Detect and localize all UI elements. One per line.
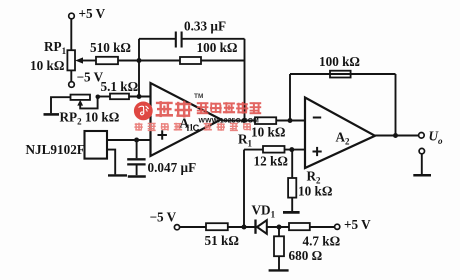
arrowhead RP1 wiper: [75, 57, 83, 63]
watermark text 全球最大IC采购网站: [134, 123, 251, 131]
wire R2 top: [291, 150, 293, 178]
wire RP2 left terminal: [51, 97, 71, 113]
resistor R2 10k: [288, 178, 296, 198]
node 5.1k/A1 inverting: [137, 94, 142, 99]
wire A2 feedback left vertical: [289, 74, 291, 121]
IC NJL9102F: [85, 131, 108, 159]
node 510k/100k/cap: [137, 58, 142, 63]
node R1/A2 inverting/feedback: [288, 118, 293, 123]
watermark text 维库: [156, 101, 192, 118]
terminal +5V top: [69, 13, 75, 19]
node RP2 wiper: [96, 95, 101, 100]
wire A1 output row: [221, 120, 255, 122]
svg-text:4.7 kΩ: 4.7 kΩ: [303, 234, 341, 249]
svg-text:5.1 kΩ: 5.1 kΩ: [101, 79, 139, 94]
ground Uo: [413, 174, 431, 177]
resistor 51k: [206, 223, 228, 230]
plus A2: [313, 151, 322, 153]
wire R1 to A2 inverting input: [276, 120, 305, 122]
ground 680: [269, 269, 289, 271]
node A1 out/R1: [242, 118, 247, 123]
potentiometer RP1: [67, 50, 75, 70]
wire top row left: [139, 38, 175, 40]
terminal stub bar left: [108, 174, 127, 176]
terminal Uo: [419, 133, 425, 139]
svg-text:100 kΩ: 100 kΩ: [319, 54, 360, 69]
resistor 100k A2: [330, 71, 351, 78]
wire 5.1k to A1 inverting input: [129, 96, 151, 98]
capacitor 0.047uF stem top: [136, 140, 138, 158]
op-amp A1: [151, 83, 222, 156]
svg-text:0.33 µF: 0.33 µF: [184, 19, 226, 34]
svg-text:12 kΩ: 12 kΩ: [254, 154, 288, 169]
svg-text:10 kΩ: 10 kΩ: [298, 184, 332, 199]
svg-text:NJL9102F: NJL9102F: [26, 142, 85, 157]
resistor 12k: [263, 146, 285, 153]
wire 4.7k to +5V terminal: [310, 226, 335, 228]
wire feedback vertical right: [244, 39, 246, 121]
minus A2: [313, 117, 321, 119]
wire NJL9102F to A1 + input: [107, 139, 151, 141]
node A2 out/feedback: [393, 133, 398, 138]
svg-text:100 kΩ: 100 kΩ: [197, 40, 238, 55]
watermark text 电子市场网: [197, 102, 261, 114]
wire A2 feedback right vertical: [395, 74, 397, 136]
terminal -5V bottom: [174, 225, 179, 230]
svg-text:10 kΩ: 10 kΩ: [30, 58, 64, 73]
svg-text:680 Ω: 680 Ω: [289, 248, 323, 263]
wire ground stem Uo: [421, 154, 423, 175]
resistor 510k: [96, 57, 118, 64]
svg-text:51 kΩ: 51 kΩ: [205, 233, 239, 248]
resistor 680: [274, 236, 284, 256]
svg-text:10 kΩ: 10 kΩ: [251, 125, 285, 140]
terminal Uo ground: [419, 148, 424, 153]
plus A1: [158, 134, 167, 136]
watermark logo circle: [134, 102, 153, 121]
svg-text:−5 V: −5 V: [150, 210, 177, 225]
wire A2 output: [375, 135, 419, 137]
terminal stub bar cap: [128, 175, 146, 177]
wire NJL9102F lower to stub: [107, 150, 115, 175]
arrowhead RP2 wiper: [77, 100, 83, 106]
node 51k/diode/12k branch: [242, 225, 247, 230]
wire 100k row right: [201, 60, 245, 62]
wire 12k row: [244, 149, 263, 151]
wire node vertical: [138, 39, 140, 97]
wire +5V to RP1: [70, 19, 72, 50]
resistor R1 10k: [255, 117, 276, 124]
terminal +5V bottom: [335, 224, 340, 229]
node 12k/R2/A2 +: [289, 147, 294, 152]
wire 510k to node: [118, 60, 139, 62]
wire A2 feedback top: [290, 73, 396, 75]
wire 51k to diode: [228, 226, 255, 228]
wire node to bottom row: [243, 150, 245, 227]
svg-text:+5 V: +5 V: [79, 6, 106, 21]
bottom row: wire -5V to 51k: [180, 226, 206, 228]
terminal -5V top: [69, 82, 75, 88]
wire RP1 to -5V terminal: [70, 70, 72, 81]
watermark big text: [194, 93, 203, 100]
wire 100k row left: [139, 60, 180, 62]
node NJL/cap/A1 +: [134, 138, 139, 143]
wire 680 top: [278, 227, 280, 236]
wire R2 bottom: [291, 198, 293, 212]
svg-text:0.047 µF: 0.047 µF: [148, 160, 197, 175]
op-amp A2: [305, 98, 375, 169]
terminal stub bar RP2: [44, 113, 60, 116]
diode VD1: [254, 220, 256, 234]
resistor 4.7k: [289, 223, 310, 230]
ground bar R2: [283, 211, 300, 214]
wire top row right: [182, 38, 245, 40]
resistor 5.1k: [110, 94, 129, 100]
node diode/4.7k/680: [277, 225, 282, 230]
wire diode to 4.7k: [267, 226, 289, 228]
svg-text:510 kΩ: 510 kΩ: [90, 40, 131, 55]
wire RP1 wiper: [82, 60, 96, 62]
svg-text:TM: TM: [194, 93, 203, 100]
potentiometer RP2: [71, 95, 91, 100]
wire 12k to A2 + input: [285, 149, 306, 151]
capacitor stem bottom: [136, 166, 138, 176]
capacitor 0.047uF: [127, 158, 145, 160]
terminal circles: [69, 13, 425, 230]
capacitor 0.33uF: [175, 32, 177, 48]
wire 680 bottom: [278, 256, 280, 269]
svg-text:RP2 10 kΩ: RP2 10 kΩ: [60, 110, 120, 127]
svg-text:+5 V: +5 V: [344, 217, 371, 232]
resistor 100k A1: [180, 57, 201, 64]
wire RP2 wiper link: [80, 97, 97, 109]
op-amp signs: [158, 118, 322, 157]
wire RP2 to 5.1k: [98, 96, 110, 98]
